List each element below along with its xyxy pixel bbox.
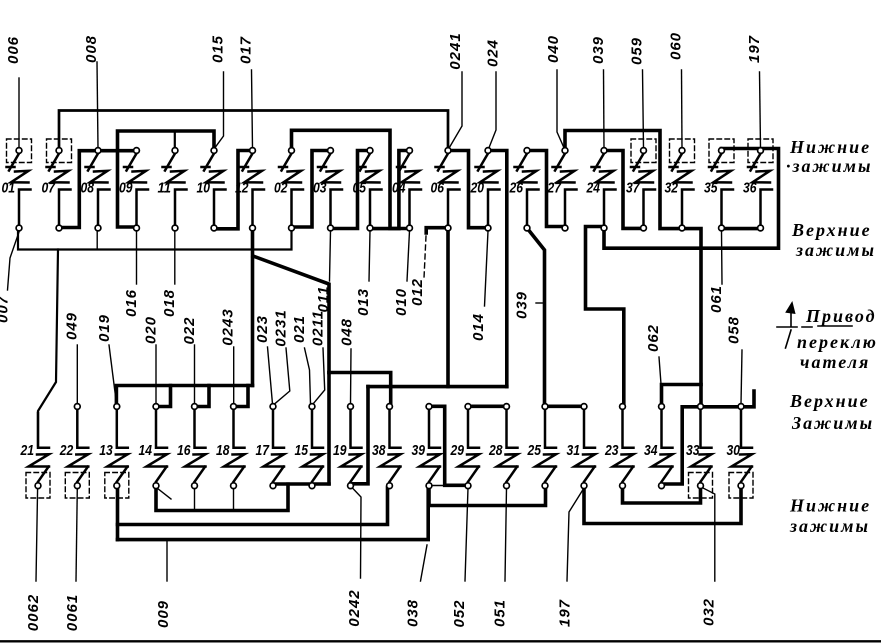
wire 12-top to 10-bottom: [214, 151, 253, 229]
wire 12-bottom area down the middle: [253, 256, 329, 373]
svg-text:·зажимы: ·зажимы: [786, 156, 873, 176]
wire 10-top to 09-bottom: [118, 131, 215, 227]
switch contact 38: [380, 410, 401, 482]
svg-text:197: 197: [746, 35, 763, 63]
svg-text:11: 11: [158, 180, 172, 197]
switch contact 04: [397, 154, 421, 226]
svg-text:0242: 0242: [346, 589, 363, 626]
svg-text:015: 015: [210, 35, 227, 63]
svg-text:34: 34: [644, 442, 658, 459]
lead 020 to 14-top: [155, 345, 157, 404]
switch contact 39: [420, 410, 441, 482]
lead 059 to 37-top: [643, 70, 644, 148]
switch contact 14: [147, 410, 168, 482]
lead 052 from 29-bottom: [465, 488, 468, 581]
svg-text:0061: 0061: [64, 594, 81, 631]
svg-text:058: 058: [726, 316, 743, 344]
dashed box, lower clamp terminal of contact 36: [748, 139, 773, 163]
switch contact 18: [224, 410, 245, 482]
svg-text:02: 02: [274, 180, 288, 197]
svg-text:38: 38: [372, 442, 386, 459]
svg-text:Верхние: Верхние: [791, 220, 872, 240]
svg-text:010: 010: [393, 288, 410, 316]
wire 06-top to 20-bottom: [448, 151, 488, 228]
svg-text:023: 023: [254, 315, 271, 343]
lead 049 to 22-top: [76, 345, 78, 404]
lead 039 to 24-top: [603, 70, 606, 148]
switch contact 08: [86, 154, 110, 226]
bus 14-bottom up to 17/15 bar: [156, 484, 288, 510]
svg-text:33: 33: [686, 442, 700, 459]
svg-text:052: 052: [451, 599, 468, 627]
lead 0062 from 21-bottom: [36, 488, 38, 581]
lead 019 to 13-top: [109, 345, 117, 404]
lead 012 from 06-bottom: [424, 236, 426, 278]
bus 13-bottom to 39-bottom: [118, 488, 429, 540]
svg-text:переклю: переклю: [797, 332, 878, 352]
svg-text:35: 35: [704, 180, 718, 197]
svg-text:019: 019: [96, 314, 113, 342]
lead 060 to 32-top: [681, 70, 684, 148]
switch contact 13: [107, 410, 128, 482]
svg-text:061: 061: [708, 285, 725, 313]
switch contact 20: [476, 154, 500, 226]
lead 006 to 01-top: [18, 78, 20, 148]
svg-text:24: 24: [586, 180, 601, 197]
stub 16-bottom: [194, 488, 196, 510]
lead 0241 to 06-top: [449, 72, 463, 149]
wire middle down to 15-bottom bar: [327, 373, 331, 484]
svg-text:009: 009: [155, 600, 172, 628]
switch contact 17: [264, 410, 285, 482]
lead 018 from 11-bottom: [174, 231, 176, 284]
svg-text:18: 18: [216, 442, 230, 459]
wire 23-bottom to 33-bottom: [623, 486, 701, 504]
svg-text:05: 05: [353, 180, 367, 197]
wire 03-top to 02-bottom: [292, 151, 331, 228]
jog 18-top to bus: [234, 386, 249, 407]
dashed box, lower clamp terminal of contact 01: [7, 139, 32, 163]
wire 39-bottom to 25-bottom: [429, 487, 546, 506]
svg-text:09: 09: [119, 180, 133, 197]
svg-text:022: 022: [181, 316, 198, 344]
wire 06-bottom down and right: [448, 229, 507, 387]
svg-text:021: 021: [291, 315, 308, 343]
switch contact 10: [202, 154, 226, 226]
wire 20-top down to middle bus: [488, 151, 507, 387]
svg-text:062: 062: [645, 324, 662, 352]
svg-text:03: 03: [313, 180, 327, 197]
svg-text:чателя: чателя: [800, 352, 870, 372]
svg-text:197: 197: [557, 599, 574, 627]
svg-text:Нижние: Нижние: [789, 137, 871, 157]
switch contact 09: [124, 154, 148, 226]
svg-text:Зажимы: Зажимы: [791, 413, 874, 433]
page border bottom: [0, 640, 881, 642]
svg-text:16: 16: [177, 442, 191, 459]
svg-text:22: 22: [59, 442, 74, 459]
wire 06-bottom left stub: [426, 228, 448, 233]
switch contact 23: [613, 410, 634, 482]
svg-text:Привод: Привод: [805, 306, 877, 326]
switch contact 22: [68, 410, 89, 482]
svg-text:19: 19: [333, 442, 347, 459]
svg-text:21: 21: [20, 442, 34, 459]
lead 013 from 05-bottom: [369, 231, 370, 281]
switch contact 36: [748, 154, 772, 226]
svg-text:29: 29: [450, 442, 465, 459]
switch contact 12: [240, 154, 264, 226]
svg-text:Верхние: Верхние: [789, 391, 870, 411]
bar 33-top to 30-top: [701, 405, 742, 409]
wire 07-top to 06-top bus: [59, 111, 448, 151]
wire 12-bottom down to lower bus: [251, 228, 255, 386]
lead 0211 to 15-top: [313, 348, 325, 404]
svg-text:36: 36: [743, 180, 757, 197]
drive arrow symbol: [777, 303, 852, 348]
lead 048 to 19-top: [350, 349, 353, 404]
stub diagonal at 14-bottom: [157, 488, 171, 499]
svg-text:30: 30: [727, 442, 741, 459]
lead 197 from 31-bottom: [567, 488, 584, 581]
svg-text:12: 12: [235, 180, 249, 197]
svg-text:28: 28: [488, 442, 503, 459]
wire 09-top/08-top to 07-bottom: [59, 151, 137, 228]
wire 31-bottom to 30-bottom: [584, 487, 741, 524]
switch contact 31: [575, 410, 596, 482]
wire 27-top to 32-bottom to 33-top: [565, 131, 701, 407]
lead 009 from bus: [166, 540, 168, 581]
bus 01-bottom to 02-bottom: [18, 228, 292, 250]
switch contact 35: [709, 154, 733, 226]
switch contact 30: [732, 410, 753, 482]
bar 25-top to 31-top: [545, 404, 584, 408]
svg-text:07: 07: [42, 180, 56, 197]
svg-text:059: 059: [629, 37, 646, 65]
lead 010 from 04-bottom: [407, 231, 410, 281]
svg-text:040: 040: [545, 35, 562, 63]
svg-text:0231: 0231: [273, 309, 290, 346]
svg-text:014: 014: [470, 313, 487, 341]
dashed box, lower clamp terminal of contact 32: [670, 139, 695, 163]
svg-text:017: 017: [238, 36, 255, 64]
lead 007 from 01-bottom: [8, 232, 20, 290]
bus 13-bottom to 38-bottom: [118, 488, 388, 525]
bus extension left to 19-bottom riser: [368, 385, 448, 389]
lead 021 to 15-top: [305, 348, 311, 404]
switch contact 26: [515, 154, 539, 226]
switch contact 02: [279, 154, 303, 226]
switch contact 03: [318, 154, 342, 226]
switch contact 27: [553, 154, 577, 226]
switch contact 37: [631, 154, 655, 226]
svg-text:39: 39: [412, 442, 426, 459]
lead 0231 to 17-top: [275, 348, 290, 404]
lead 0243 to 18-top: [233, 347, 235, 404]
lead 038 from 39-bottom: [421, 545, 428, 581]
wire bus to contact 21: [38, 250, 58, 447]
svg-text:зажимы: зажимы: [789, 516, 870, 536]
lead 014 from 20-bottom: [485, 231, 489, 306]
svg-text:27: 27: [547, 180, 562, 197]
stub right of 30-top: [741, 391, 754, 407]
branch to 34-top: [662, 385, 702, 405]
wire 11-top to bus: [174, 131, 176, 151]
svg-text:032: 032: [701, 598, 718, 626]
stub 18-bottom: [233, 488, 235, 510]
svg-text:37: 37: [626, 180, 640, 197]
switch contact 29: [459, 410, 480, 482]
svg-text:06: 06: [431, 180, 445, 197]
svg-text:013: 013: [355, 288, 372, 316]
lead 017 to 12-top: [252, 70, 253, 148]
dashed box, lower clamp terminal of contact 33: [689, 473, 713, 499]
dashed box, lower clamp terminal of contact 13: [105, 473, 129, 499]
wire 26-top to 27-bottom: [527, 151, 565, 227]
dashed box, lower clamp terminal of contact 21: [26, 473, 50, 499]
stub 39-bottom: [429, 485, 445, 487]
lead 016 from 09-bottom: [136, 231, 138, 284]
lead 058 to 30-top: [741, 350, 742, 404]
dashed box, lower clamp terminal of contact 37: [631, 139, 656, 163]
svg-text:0062: 0062: [25, 594, 42, 631]
wire 02-top to 04-bottom: [292, 130, 410, 228]
svg-text:08: 08: [81, 180, 95, 197]
switch contact 19: [341, 410, 362, 482]
lead 023 to 17-top: [268, 347, 273, 404]
switch contact 34: [652, 410, 673, 482]
svg-text:049: 049: [63, 312, 80, 340]
switch contact 01: [7, 154, 31, 226]
svg-text:04: 04: [392, 180, 406, 197]
lead 062 to 34-top: [659, 357, 661, 384]
lead 032 from 33-bottom: [702, 488, 715, 582]
lead 022 to 16-top: [194, 345, 196, 404]
lead 040 to 27-top: [557, 70, 565, 149]
wire 24-bottom to 36-top to 35-top: [604, 149, 779, 249]
lead 061 to 35-bottom: [721, 231, 724, 284]
lead 0061 from 22-bottom: [76, 488, 77, 581]
svg-text:007: 007: [0, 295, 12, 323]
switch contact 07: [47, 154, 71, 226]
svg-text:008: 008: [83, 35, 100, 63]
lead 011 from 03-bottom: [330, 231, 331, 281]
svg-text:016: 016: [123, 289, 140, 317]
switch contact 11: [163, 154, 187, 226]
wire 13-bottom down: [116, 488, 120, 540]
switch contact 25: [536, 410, 557, 482]
riser down to 19-bottom: [350, 387, 368, 484]
svg-text:018: 018: [161, 289, 178, 317]
svg-text:Нижние: Нижние: [789, 496, 871, 516]
jog 16-top to bus: [195, 386, 210, 407]
wire 24-top to 37-bottom: [604, 151, 644, 229]
switch contact 15: [303, 410, 324, 482]
switch contact 05: [358, 154, 382, 226]
svg-text:25: 25: [527, 442, 542, 459]
dashed box, lower clamp terminal of contact 22: [65, 473, 89, 499]
wire 35-bottom to 36-bottom: [722, 227, 761, 231]
svg-text:01: 01: [2, 180, 16, 197]
svg-text:13: 13: [99, 442, 113, 459]
svg-text:024: 024: [485, 39, 502, 67]
dashed box, lower clamp terminal of contact 07: [47, 139, 72, 163]
bar 17-bottom to 15-bottom: [273, 482, 329, 486]
switch contact 21: [29, 413, 50, 482]
svg-text:012: 012: [409, 278, 426, 306]
tick of label 039 middle: [536, 302, 544, 304]
switch contact 24: [592, 154, 616, 226]
stub 08-bottom: [96, 231, 98, 249]
svg-text:0211: 0211: [310, 310, 327, 346]
lower serpentine bus to 13-top: [116, 386, 252, 405]
svg-text:0241: 0241: [447, 32, 464, 69]
dashed box, lower clamp terminal of contact 30: [729, 473, 753, 499]
lead 197 to 36-top: [760, 72, 761, 148]
svg-text:051: 051: [492, 599, 509, 627]
svg-text:31: 31: [567, 442, 581, 459]
switch contact 28: [497, 410, 518, 482]
svg-text:32: 32: [665, 180, 679, 197]
lead 015 to 10-top: [214, 72, 224, 149]
switch contact 33: [691, 410, 712, 482]
svg-text:020: 020: [143, 316, 160, 344]
wire middle to 38-top: [329, 373, 391, 405]
switch contact 16: [185, 410, 206, 482]
lead 0242 from 19-bottom: [352, 487, 362, 578]
lead 024 to 20-top: [489, 72, 497, 149]
svg-text:011: 011: [315, 286, 332, 313]
bar 29-top to 28-top: [468, 404, 507, 408]
svg-text:20: 20: [470, 180, 485, 197]
wire 24-bottom to 23-top: [586, 227, 624, 407]
wire 33-top to 34-bottom: [662, 407, 701, 484]
svg-text:039: 039: [514, 291, 531, 319]
svg-text:15: 15: [295, 442, 309, 459]
svg-text:038: 038: [405, 599, 422, 627]
svg-text:10: 10: [197, 180, 211, 197]
switch contact 32: [670, 154, 694, 226]
svg-text:039: 039: [590, 36, 607, 64]
wire 39-top to 29-bottom: [429, 406, 468, 485]
lead 051 from 28-bottom: [505, 488, 507, 581]
svg-text:23: 23: [604, 442, 619, 459]
svg-text:26: 26: [509, 180, 524, 197]
wire 26-bottom to 25-top: [527, 228, 545, 407]
lead 008 to 08-top: [97, 62, 98, 148]
svg-text:0243: 0243: [220, 308, 237, 345]
svg-text:14: 14: [139, 442, 153, 459]
svg-text:зажимы: зажимы: [795, 240, 876, 260]
wire 05-top to 03-bottom: [331, 151, 371, 229]
wire 04-top to 05-bottom: [370, 151, 410, 229]
dashed box, lower clamp terminal of contact 35: [709, 139, 734, 163]
switch contact 06: [436, 154, 460, 226]
svg-text:060: 060: [668, 32, 685, 60]
svg-text:17: 17: [256, 442, 270, 459]
svg-text:048: 048: [339, 318, 356, 346]
svg-text:006: 006: [5, 36, 22, 64]
jog 14-top to bus: [156, 386, 171, 407]
